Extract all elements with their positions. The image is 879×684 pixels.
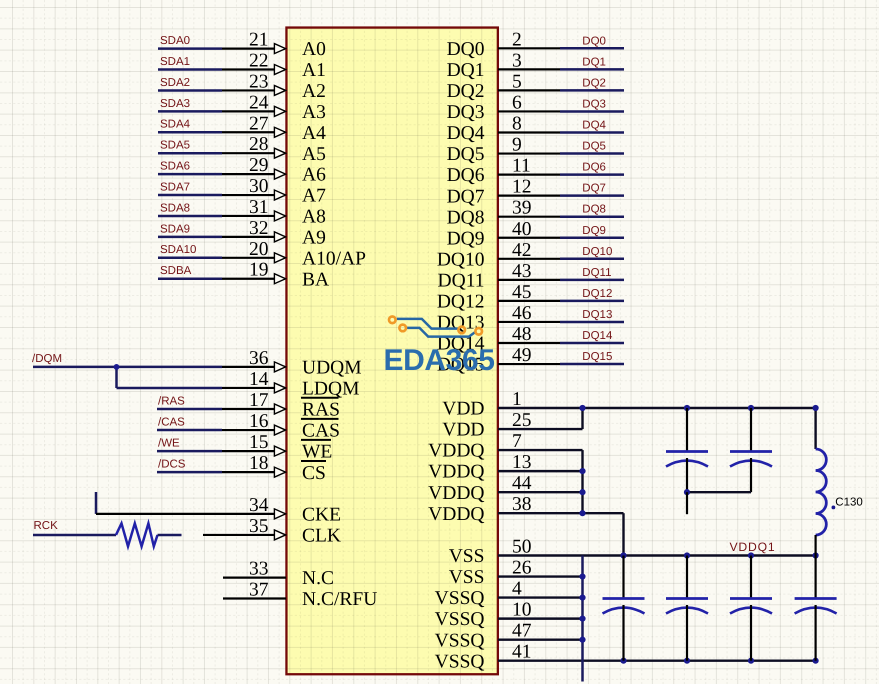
svg-text:DQ3: DQ3: [447, 102, 485, 123]
svg-text:49: 49: [512, 345, 532, 366]
svg-text:DQ14: DQ14: [582, 330, 613, 342]
svg-text:DQ9: DQ9: [447, 228, 485, 249]
svg-text:DQ6: DQ6: [582, 162, 606, 174]
svg-text:DQ3: DQ3: [582, 98, 606, 110]
svg-text:DQ13: DQ13: [582, 309, 612, 321]
svg-text:DQ5: DQ5: [582, 141, 606, 153]
svg-text:DQ11: DQ11: [438, 270, 485, 291]
svg-text:A7: A7: [302, 186, 326, 207]
svg-text:SDA6: SDA6: [160, 161, 190, 173]
svg-text:DQ4: DQ4: [447, 123, 485, 144]
svg-text:VDDQ: VDDQ: [428, 441, 484, 462]
svg-text:N.C: N.C: [302, 568, 334, 589]
svg-text:SDA3: SDA3: [160, 98, 190, 110]
svg-text:45: 45: [512, 282, 532, 303]
svg-text:46: 46: [512, 303, 532, 324]
svg-text:SDA5: SDA5: [160, 140, 190, 152]
svg-text:SDA9: SDA9: [160, 223, 190, 235]
svg-text:LDQM: LDQM: [302, 379, 359, 400]
svg-text:VSS: VSS: [449, 567, 485, 588]
svg-text:BA: BA: [302, 269, 329, 290]
svg-text:DQ11: DQ11: [582, 267, 611, 279]
svg-text:DQ1: DQ1: [582, 56, 606, 68]
svg-text:/WE: /WE: [158, 438, 180, 450]
svg-text:2: 2: [512, 29, 522, 50]
svg-text:DQ8: DQ8: [447, 207, 485, 228]
svg-text:22: 22: [249, 51, 269, 72]
svg-text:43: 43: [512, 261, 532, 282]
svg-text:11: 11: [512, 156, 531, 177]
svg-text:SDA8: SDA8: [160, 202, 190, 214]
svg-text:VSSQ: VSSQ: [435, 651, 485, 672]
svg-text:N.C/RFU: N.C/RFU: [302, 589, 377, 610]
svg-text:A3: A3: [302, 102, 326, 123]
svg-text:SDA1: SDA1: [160, 56, 190, 68]
svg-text:DQ12: DQ12: [582, 288, 612, 300]
svg-text:/DQM: /DQM: [32, 353, 62, 365]
svg-text:SDBA: SDBA: [160, 265, 192, 277]
svg-text:/DCS: /DCS: [158, 459, 186, 471]
svg-text:39: 39: [512, 198, 532, 219]
svg-text:16: 16: [249, 411, 269, 432]
svg-text:37: 37: [249, 580, 269, 601]
svg-text:VSSQ: VSSQ: [435, 609, 485, 630]
svg-text:9: 9: [512, 135, 522, 156]
svg-text:27: 27: [249, 113, 269, 134]
svg-text:35: 35: [249, 516, 269, 537]
svg-text:DQ13: DQ13: [437, 313, 485, 334]
svg-text:40: 40: [512, 219, 532, 240]
svg-text:WE: WE: [302, 442, 332, 463]
svg-text:DQ0: DQ0: [582, 35, 606, 47]
svg-text:/CAS: /CAS: [158, 416, 185, 428]
svg-text:19: 19: [249, 260, 269, 281]
svg-text:32: 32: [249, 218, 269, 239]
svg-text:CLK: CLK: [302, 526, 341, 547]
svg-text:A6: A6: [302, 165, 326, 186]
svg-text:A9: A9: [302, 227, 326, 248]
svg-text:SDA0: SDA0: [160, 35, 190, 47]
svg-text:29: 29: [249, 155, 269, 176]
svg-text:DQ0: DQ0: [447, 39, 485, 60]
svg-text:20: 20: [249, 239, 269, 260]
svg-text:31: 31: [249, 197, 269, 218]
svg-text:15: 15: [249, 432, 269, 453]
svg-text:UDQM: UDQM: [302, 358, 362, 379]
svg-text:14: 14: [249, 369, 269, 390]
svg-text:A8: A8: [302, 207, 326, 228]
svg-text:SDA7: SDA7: [160, 181, 190, 193]
svg-text:CKE: CKE: [302, 505, 341, 526]
svg-text:21: 21: [249, 30, 269, 51]
svg-text:DQ8: DQ8: [582, 204, 606, 216]
svg-text:VDDQ: VDDQ: [428, 483, 484, 504]
svg-text:DQ12: DQ12: [437, 292, 485, 313]
svg-text:33: 33: [249, 559, 269, 580]
svg-text:SDA4: SDA4: [160, 119, 191, 131]
svg-text:RAS: RAS: [302, 400, 340, 421]
svg-text:A2: A2: [302, 81, 326, 102]
svg-text:DQ10: DQ10: [437, 249, 485, 270]
svg-text:6: 6: [512, 92, 522, 113]
svg-text:DQ10: DQ10: [582, 246, 612, 258]
svg-text:VDD: VDD: [442, 420, 484, 441]
svg-text:18: 18: [249, 453, 269, 474]
svg-text:23: 23: [249, 71, 269, 92]
svg-text:EDA365: EDA365: [384, 344, 495, 377]
svg-text:C130: C130: [835, 496, 863, 508]
svg-text:DQ5: DQ5: [447, 144, 485, 165]
svg-text:A0: A0: [302, 39, 326, 60]
svg-text:8: 8: [512, 114, 522, 135]
svg-text:DQ2: DQ2: [447, 81, 485, 102]
svg-text:CAS: CAS: [302, 421, 340, 442]
svg-text:DQ15: DQ15: [582, 351, 612, 363]
svg-text:A4: A4: [302, 123, 326, 144]
svg-text:VSS: VSS: [449, 546, 485, 567]
svg-text:DQ2: DQ2: [582, 77, 606, 89]
svg-text:A1: A1: [302, 60, 326, 81]
svg-text:3: 3: [512, 50, 522, 71]
svg-text:42: 42: [512, 240, 532, 261]
svg-text:VDDQ: VDDQ: [428, 504, 484, 525]
svg-text:DQ7: DQ7: [447, 186, 485, 207]
svg-text:5: 5: [512, 71, 522, 92]
svg-text:SDA2: SDA2: [160, 77, 190, 89]
svg-text:VDD: VDD: [442, 399, 484, 420]
svg-text:12: 12: [512, 177, 532, 198]
svg-text:VDDQ: VDDQ: [428, 462, 484, 483]
svg-text:36: 36: [249, 348, 269, 369]
svg-text:A10/AP: A10/AP: [302, 248, 366, 269]
svg-text:/RAS: /RAS: [158, 395, 185, 407]
svg-text:17: 17: [249, 390, 269, 411]
svg-text:SDA10: SDA10: [160, 244, 196, 256]
svg-text:VDDQ1: VDDQ1: [730, 540, 776, 554]
svg-text:DQ7: DQ7: [582, 183, 606, 195]
svg-text:30: 30: [249, 176, 269, 197]
svg-text:VSSQ: VSSQ: [435, 630, 485, 651]
svg-text:DQ6: DQ6: [447, 165, 485, 186]
svg-text:VSSQ: VSSQ: [435, 588, 485, 609]
svg-text:RCK: RCK: [34, 520, 59, 532]
svg-text:A5: A5: [302, 144, 326, 165]
svg-text:24: 24: [249, 92, 269, 113]
svg-text:48: 48: [512, 324, 532, 345]
svg-text:DQ9: DQ9: [582, 225, 606, 237]
svg-text:34: 34: [249, 495, 269, 516]
svg-text:28: 28: [249, 134, 269, 155]
svg-text:DQ1: DQ1: [447, 60, 485, 81]
svg-text:CS: CS: [302, 463, 326, 484]
svg-text:DQ4: DQ4: [582, 120, 606, 132]
